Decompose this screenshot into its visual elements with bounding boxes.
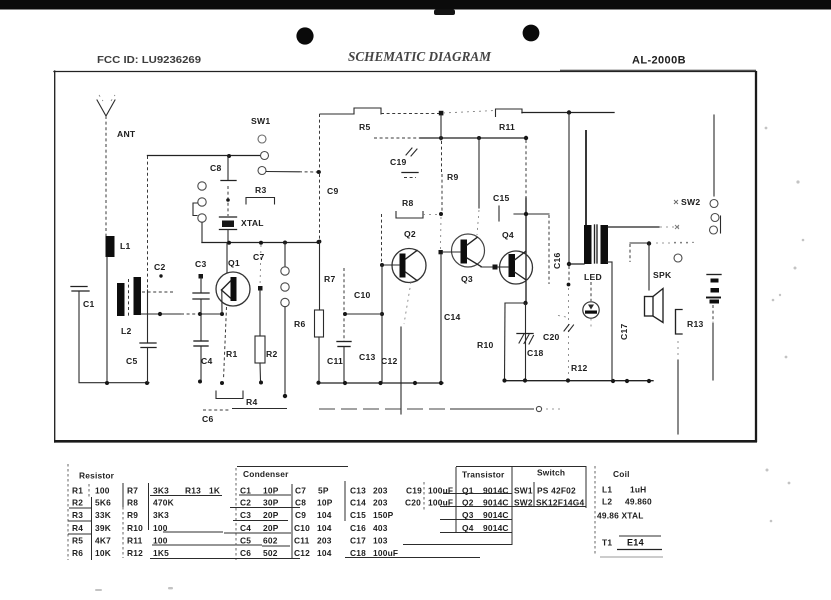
condenser table rules	[224, 468, 512, 560]
resistor designator column R7-R12	[127, 486, 143, 559]
wire L2 secondary top	[142, 291, 173, 293]
svg-text:C17: C17	[350, 536, 366, 546]
svg-text:C15: C15	[350, 510, 366, 520]
svg-text:C4: C4	[201, 356, 213, 366]
capacitor C20	[558, 316, 574, 332]
svg-text:C14: C14	[350, 498, 366, 508]
wire lower rail y409	[319, 406, 560, 411]
svg-text:R11: R11	[499, 122, 515, 132]
svg-text:33K: 33K	[95, 510, 111, 520]
svg-text:C3: C3	[240, 510, 251, 520]
capacitor C3	[193, 274, 209, 314]
svg-text:C2: C2	[154, 262, 166, 272]
svg-text:C5: C5	[240, 536, 251, 546]
capacitor C18	[517, 334, 534, 345]
scanner top black bar	[0, 0, 831, 10]
wire T1 left bottom	[569, 263, 584, 265]
speaker SPK	[645, 289, 664, 323]
svg-text:30P: 30P	[263, 498, 279, 508]
svg-text:R2: R2	[266, 349, 278, 359]
svg-text:104: 104	[317, 510, 332, 520]
svg-text:C8: C8	[210, 163, 222, 173]
svg-text:C16: C16	[552, 252, 562, 269]
svg-text:R4: R4	[72, 523, 83, 533]
svg-text:104: 104	[317, 523, 332, 533]
wire R10 top link	[505, 302, 526, 304]
wire T1 secondary top	[608, 226, 679, 228]
punch hole right	[523, 25, 540, 42]
transformer L2 windings	[117, 277, 141, 316]
condenser designator column C13-C18	[350, 486, 366, 559]
svg-text:SPK: SPK	[653, 270, 672, 280]
svg-text:ANT: ANT	[117, 129, 136, 139]
wire Q3-Q4 coupling	[481, 265, 500, 270]
schematic border box top edge	[54, 71, 756, 73]
svg-text:R9: R9	[127, 510, 138, 520]
svg-text:R13: R13	[185, 486, 201, 496]
wire lower rail under XTAL	[202, 240, 321, 245]
resistor value column R7-R12	[153, 486, 174, 559]
svg-text:R1: R1	[226, 349, 238, 359]
switch SW2	[674, 115, 721, 262]
wire ground bus left	[79, 381, 149, 385]
svg-text:R12: R12	[571, 363, 588, 373]
svg-text:10K: 10K	[95, 548, 111, 558]
crystal XTAL	[220, 217, 237, 242]
svg-text:R12: R12	[127, 548, 143, 558]
wire tuned rail down from SW1 rail	[147, 156, 149, 343]
svg-text:C3: C3	[195, 259, 207, 269]
scan noise specks right margin	[765, 127, 805, 523]
svg-text:L1: L1	[602, 485, 612, 495]
svg-text:R5: R5	[72, 536, 83, 546]
svg-text:R11: R11	[127, 536, 143, 546]
scan speck bottom left	[95, 589, 102, 591]
svg-text:R7: R7	[127, 486, 138, 496]
svg-text:C20: C20	[405, 498, 421, 508]
wire ground bus centre	[316, 381, 443, 386]
svg-text:C10: C10	[354, 290, 371, 300]
svg-text:49.86 XTAL: 49.86 XTAL	[597, 511, 644, 521]
svg-text:39K: 39K	[95, 523, 111, 533]
svg-text:1K: 1K	[209, 486, 220, 496]
wire speaker feed	[630, 241, 689, 290]
svg-text:C4: C4	[240, 523, 251, 533]
svg-text:150P: 150P	[373, 510, 394, 520]
wire ground bus right	[502, 378, 653, 383]
resistor table rules	[68, 483, 262, 560]
svg-text:PS 42F02: PS 42F02	[537, 486, 576, 496]
svg-text:C13: C13	[350, 486, 366, 496]
svg-text:R8: R8	[127, 498, 138, 508]
svg-text:C19: C19	[390, 157, 407, 167]
svg-text:100: 100	[153, 536, 168, 546]
svg-text:C12: C12	[294, 548, 310, 558]
svg-text:T1: T1	[602, 538, 612, 548]
coil L1 row	[602, 485, 646, 495]
transistor table rules	[440, 466, 586, 545]
wire SW1 output	[267, 170, 321, 174]
svg-text:C18: C18	[350, 548, 366, 558]
node junction on SW1 rail	[227, 154, 231, 158]
capacitor C19	[402, 148, 418, 178]
node dots emitter bus	[198, 380, 263, 386]
resistor R5	[320, 108, 381, 114]
condenser designator column C1-C6	[240, 486, 251, 559]
transistor Q2	[382, 249, 426, 325]
wire L1 down	[106, 257, 108, 383]
wire Q4 collector column	[514, 140, 549, 303]
resistor R11	[496, 109, 523, 117]
capacitor C5	[140, 343, 156, 382]
capacitor C1	[71, 287, 89, 383]
trimmer contact circles near C8	[193, 182, 206, 243]
svg-text:R4: R4	[246, 397, 258, 407]
svg-text:R10: R10	[477, 340, 494, 350]
svg-text:SW1: SW1	[514, 486, 533, 496]
condenser value column C13-C18	[373, 486, 398, 559]
parts table	[68, 464, 663, 560]
svg-text:LED: LED	[584, 272, 602, 282]
coil L2 row	[602, 497, 652, 507]
svg-text:C19: C19	[406, 486, 422, 496]
svg-text:100: 100	[95, 486, 110, 496]
svg-text:R2: R2	[72, 498, 83, 508]
svg-text:5K6: 5K6	[95, 498, 111, 508]
svg-text:C15: C15	[493, 193, 510, 203]
node Q4 collector	[523, 301, 527, 305]
svg-text:C17: C17	[619, 323, 629, 340]
wire rail to transformer	[522, 110, 614, 114]
svg-text:E14: E14	[627, 538, 644, 548]
svg-text:Transistor: Transistor	[462, 470, 505, 480]
resistor R10	[504, 303, 507, 380]
svg-text:C6: C6	[202, 414, 214, 424]
svg-text:C7: C7	[295, 486, 306, 496]
capacitor C6 rail	[203, 409, 287, 411]
svg-text:C18: C18	[527, 348, 544, 358]
trimmer capacitor C7	[281, 243, 289, 399]
resistor R2	[255, 245, 265, 381]
wire top rail to SW1	[148, 155, 261, 157]
svg-text:AL-2000B: AL-2000B	[632, 55, 686, 67]
svg-text:3K3: 3K3	[153, 486, 169, 496]
svg-text:R1: R1	[72, 486, 83, 496]
svg-text:C2: C2	[240, 498, 251, 508]
svg-text:C8: C8	[295, 498, 306, 508]
svg-text:Q4: Q4	[462, 523, 474, 533]
svg-text:C11: C11	[294, 536, 310, 546]
svg-text:C10: C10	[294, 523, 310, 533]
switch table rules	[534, 466, 586, 508]
capacitor C4	[194, 314, 208, 380]
svg-text:XTAL: XTAL	[241, 218, 264, 228]
svg-text:FCC ID: LU9236269: FCC ID: LU9236269	[97, 55, 201, 66]
svg-text:C5: C5	[126, 356, 138, 366]
resistor R3	[246, 198, 275, 205]
svg-text:C13: C13	[359, 352, 376, 362]
wire T1 secondary bottom / C17 column	[607, 262, 612, 380]
svg-text:5P: 5P	[318, 486, 329, 496]
svg-text:C16: C16	[350, 523, 366, 533]
svg-text:C9: C9	[327, 186, 339, 196]
condenser designator column C7-C12	[294, 486, 310, 559]
schematic border box left edge	[54, 71, 56, 442]
svg-text:C1: C1	[240, 486, 251, 496]
svg-text:Resistor: Resistor	[79, 471, 115, 481]
wire mid rail y138	[374, 136, 528, 140]
svg-text:203: 203	[373, 486, 388, 496]
svg-text:Q4: Q4	[502, 230, 514, 240]
diode LED	[583, 282, 599, 329]
svg-text:10P: 10P	[317, 498, 333, 508]
svg-text:R9: R9	[447, 172, 459, 182]
svg-text:SCHEMATIC DIAGRAM: SCHEMATIC DIAGRAM	[348, 50, 492, 65]
svg-text:9014C: 9014C	[483, 510, 509, 520]
svg-text:502: 502	[263, 548, 278, 558]
svg-text:R13: R13	[687, 319, 704, 329]
svg-text:L1: L1	[120, 241, 131, 251]
capacitor C14	[439, 250, 443, 382]
wire Q2 base column x382	[380, 214, 384, 382]
wire Q3 collector drop	[478, 138, 480, 208]
resistor R13	[676, 310, 683, 335]
svg-text:SW2: SW2	[681, 197, 700, 207]
capacitor C11	[337, 342, 351, 383]
capacitor C8	[221, 156, 236, 216]
table header Transistor	[456, 467, 512, 480]
scan speck below box	[168, 587, 173, 589]
svg-text:L2: L2	[121, 326, 132, 336]
wire Q4 collector to bus	[525, 303, 527, 380]
condenser designator column C19-C20	[405, 486, 422, 508]
resistor R8	[396, 212, 438, 219]
svg-text:9014C: 9014C	[483, 523, 509, 533]
switch SW1 contacts	[258, 135, 269, 175]
svg-text:104: 104	[317, 548, 332, 558]
svg-text:C7: C7	[253, 252, 265, 262]
resistor R4	[216, 391, 243, 399]
transformer T1	[584, 225, 608, 264]
scan blob under top bar	[434, 10, 455, 16]
svg-text:R6: R6	[72, 548, 83, 558]
svg-text:20P: 20P	[263, 510, 279, 520]
condenser value column C7-C12	[317, 486, 333, 559]
svg-text:403: 403	[373, 523, 388, 533]
resistor R6 column	[315, 114, 324, 382]
svg-text:49.860: 49.860	[625, 497, 652, 507]
resistor R1 (emitter leg)	[224, 307, 227, 379]
svg-text:C14: C14	[444, 312, 461, 322]
svg-text:C9: C9	[295, 510, 306, 520]
svg-text:L2: L2	[602, 497, 612, 507]
resistor R13 entry	[185, 486, 220, 496]
svg-text:4K7: 4K7	[95, 536, 111, 546]
resistor value column R1-R6	[95, 486, 111, 559]
switch SW1 row	[514, 486, 576, 496]
transformer T1 primary lead	[585, 130, 587, 225]
svg-text:203: 203	[317, 536, 332, 546]
svg-text:R6: R6	[294, 319, 306, 329]
svg-text:C6: C6	[240, 548, 251, 558]
svg-text:R10: R10	[127, 523, 143, 533]
svg-text:103: 103	[373, 536, 388, 546]
svg-text:Coil: Coil	[613, 469, 630, 479]
svg-text:Q3: Q3	[462, 510, 474, 520]
capacitor C15	[498, 206, 500, 221]
svg-text:10P: 10P	[263, 486, 279, 496]
node C2	[159, 274, 162, 277]
switch SW2 row	[514, 498, 584, 508]
transistor value column	[483, 486, 509, 534]
svg-text:Switch: Switch	[537, 468, 565, 478]
svg-text:C1: C1	[83, 299, 95, 309]
svg-text:Q2: Q2	[404, 229, 416, 239]
transistor Q1	[216, 243, 250, 313]
svg-text:R3: R3	[72, 510, 83, 520]
transistor Q3	[443, 210, 485, 267]
svg-text:R7: R7	[324, 274, 336, 284]
condenser value column C19-C20	[428, 486, 453, 508]
antenna ANT	[97, 95, 115, 236]
svg-text:602: 602	[263, 536, 278, 546]
svg-text:C20: C20	[543, 332, 560, 342]
svg-text:R3: R3	[255, 185, 267, 195]
table header Switch	[512, 467, 586, 478]
transistor Q4	[500, 251, 533, 284]
inductor L1	[106, 236, 115, 257]
svg-text:SW1: SW1	[251, 116, 270, 126]
svg-text:1K5: 1K5	[153, 548, 169, 558]
condenser value column C1-C6	[263, 486, 279, 559]
svg-text:R5: R5	[359, 122, 371, 132]
table left dashed border	[67, 464, 69, 560]
battery BT1	[706, 275, 721, 381]
svg-text:SW2: SW2	[514, 498, 533, 508]
svg-text:C12: C12	[381, 356, 398, 366]
table header Coil	[595, 466, 630, 556]
svg-text:Q1: Q1	[228, 258, 240, 268]
svg-text:R8: R8	[402, 198, 414, 208]
schematic border box bottom edge	[54, 440, 757, 443]
wire C10 row	[343, 312, 382, 316]
svg-text:20P: 20P	[263, 523, 279, 533]
wire L2 secondary to Q1 base	[141, 312, 224, 316]
transformer T1 row	[600, 536, 663, 557]
svg-text:1uH: 1uH	[630, 485, 646, 495]
schematic border box right edge	[755, 71, 757, 442]
wire bottom right drop	[677, 341, 679, 434]
punch hole left	[296, 27, 313, 44]
capacitor C16	[548, 215, 550, 284]
capacitor C12 column	[400, 327, 402, 414]
svg-text:SK12F14G4: SK12F14G4	[536, 498, 584, 508]
svg-text:3K3: 3K3	[153, 510, 169, 520]
resistor designator column R1-R6	[72, 486, 83, 559]
resistor R7	[343, 268, 345, 341]
svg-text:C11: C11	[327, 356, 343, 366]
wire top rail y113	[381, 111, 495, 116]
wire supply column x569	[567, 113, 572, 377]
resistor R9 column	[439, 115, 443, 249]
svg-text:470K: 470K	[153, 498, 174, 508]
svg-text:Q3: Q3	[461, 274, 473, 284]
transistor designator column	[462, 486, 474, 534]
table header Condenser	[237, 467, 348, 480]
svg-text:Condenser: Condenser	[243, 469, 289, 479]
svg-text:203: 203	[373, 498, 388, 508]
svg-text:100uF: 100uF	[373, 548, 398, 558]
